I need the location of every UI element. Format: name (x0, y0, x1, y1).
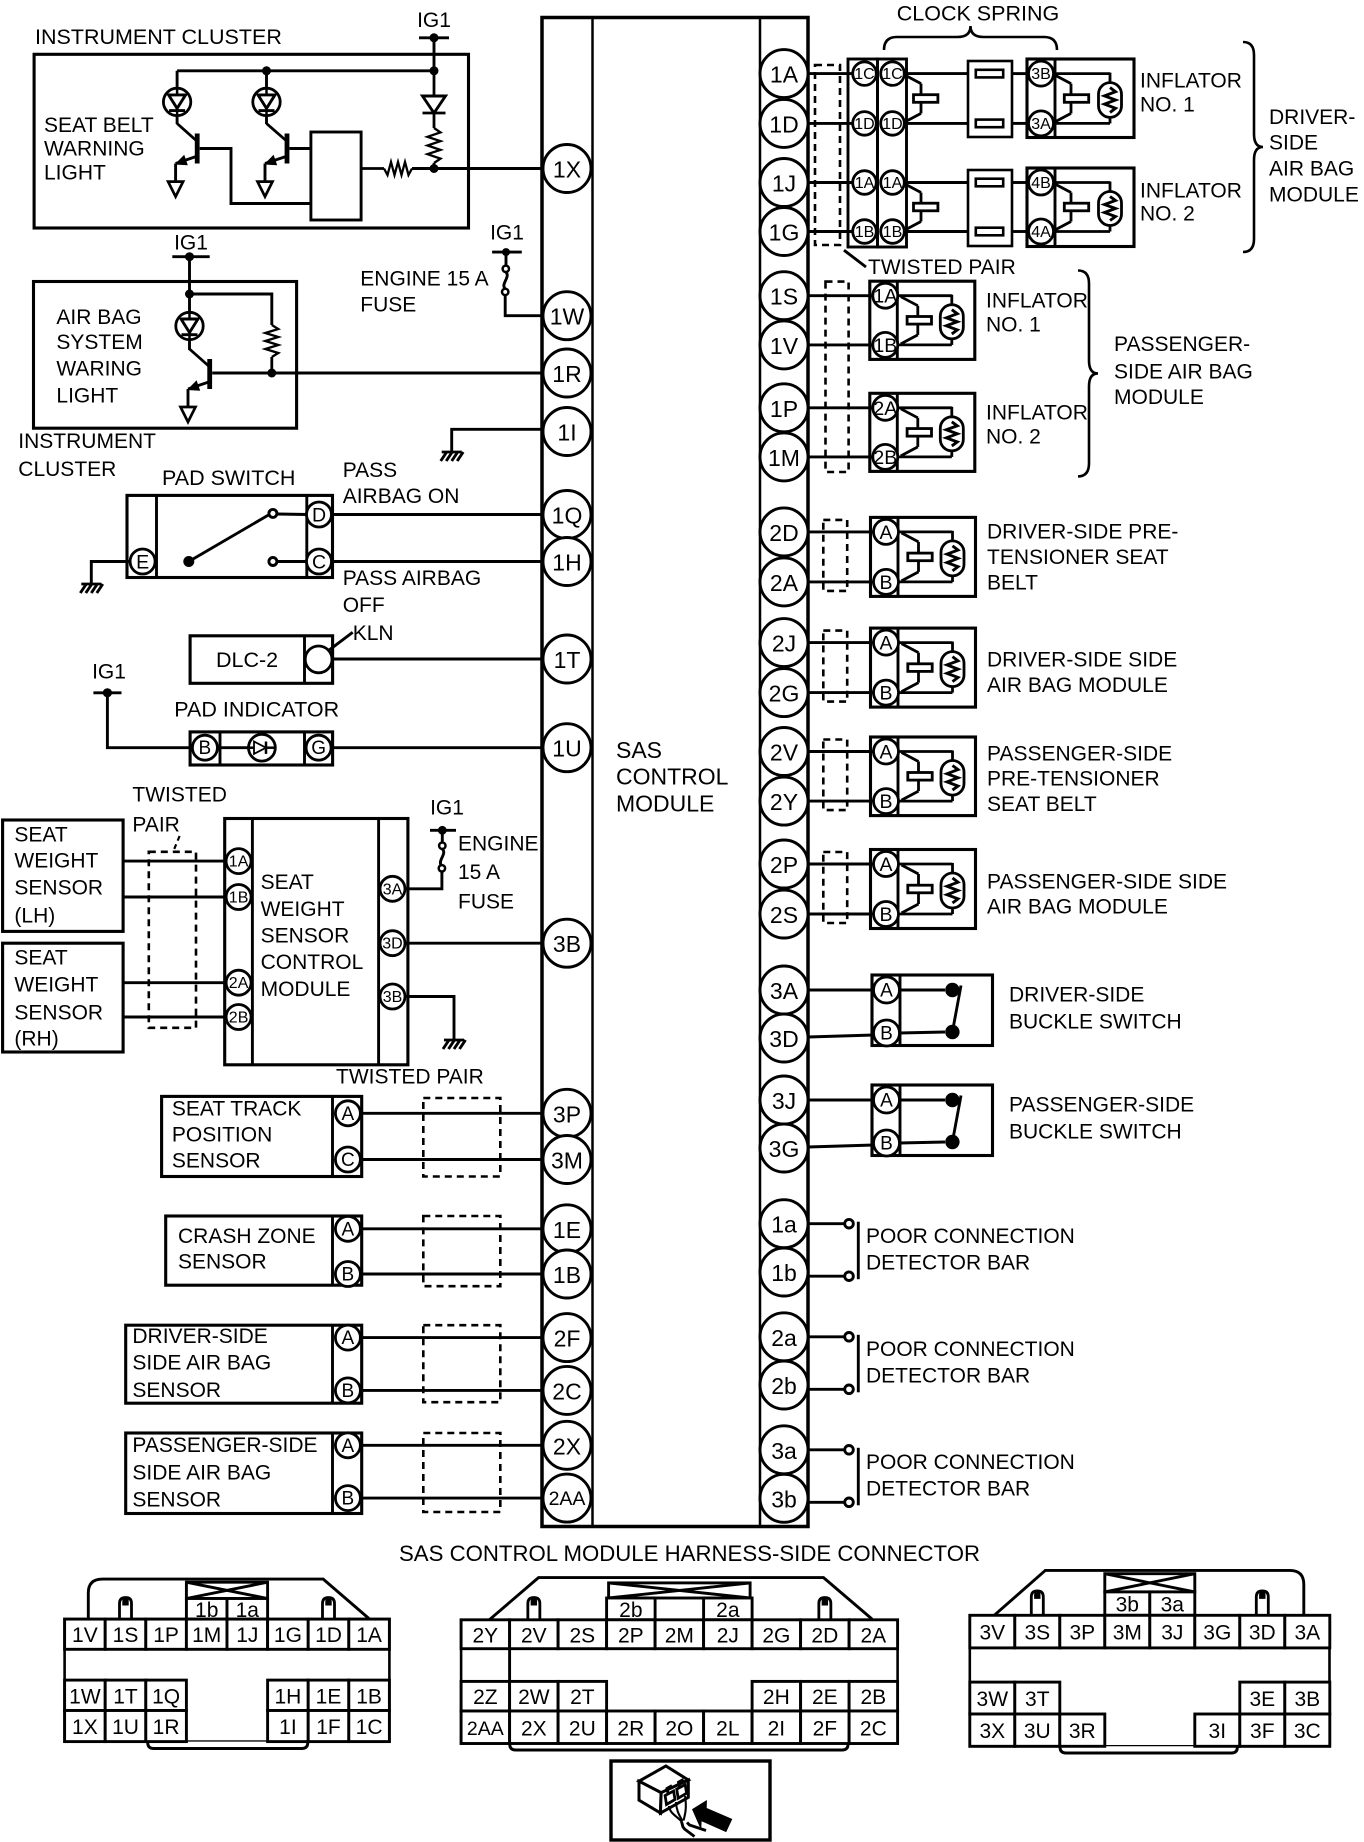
passenger inflator no.1 inflator squib element (898, 294, 952, 297)
svg-text:DRIVER-SIDE: DRIVER-SIDE (132, 1325, 267, 1348)
svg-text:DRIVER-: DRIVER- (1269, 106, 1355, 129)
junction dot (430, 66, 439, 75)
svg-text:2B: 2B (861, 1686, 887, 1709)
cell 1b (186, 1599, 227, 1622)
twisted pair shield (seat track) (423, 1098, 500, 1177)
wire fuse to terminal 3A (405, 871, 442, 889)
wire LED3 to Q3 collector (188, 340, 191, 350)
wire rail to LED2 (265, 71, 268, 88)
svg-text:SEAT BELT: SEAT BELT (987, 793, 1097, 816)
svg-text:POSITION: POSITION (172, 1124, 272, 1147)
svg-text:PASSENGER-: PASSENGER- (1114, 333, 1250, 356)
wire G to pin 1U (331, 746, 543, 749)
driver-side air bag module brace (1243, 42, 1263, 252)
svg-text:A: A (879, 854, 892, 876)
svg-text:3C: 3C (1294, 1720, 1321, 1743)
svg-text:2B: 2B (873, 447, 897, 469)
cell 3C (1285, 1714, 1330, 1746)
terminal B (192, 735, 217, 760)
connector icon arrow (692, 1800, 732, 1832)
svg-text:(LH): (LH) (14, 905, 55, 928)
passenger-side pre-tensioner seat belt squib shorting bar (902, 753, 933, 801)
SAS control module right pin-strip line (759, 18, 762, 1527)
svg-text:2U: 2U (569, 1717, 596, 1740)
svg-text:2J: 2J (772, 631, 796, 657)
svg-text:SEAT: SEAT (14, 824, 67, 847)
pin 1R (543, 349, 591, 397)
svg-text:1Q: 1Q (552, 503, 583, 529)
svg-text:1H: 1H (274, 1685, 301, 1708)
wire to passenger-side side air bag module A (808, 863, 873, 866)
svg-text:CONTROL: CONTROL (261, 951, 364, 974)
cell 1E (308, 1680, 349, 1710)
cell 2E (801, 1681, 850, 1711)
svg-text:SENSOR: SENSOR (132, 1379, 221, 1402)
connector terminal (976, 120, 1003, 128)
svg-text:B: B (879, 791, 892, 813)
cell 3T (1015, 1682, 1060, 1714)
svg-text:1X: 1X (553, 157, 581, 183)
terminal 3D (380, 931, 405, 956)
passenger-side pre-tensioner seat belt box (871, 737, 976, 816)
svg-text:TWISTED: TWISTED (132, 784, 227, 807)
svg-text:PASSENGER-SIDE: PASSENGER-SIDE (1009, 1094, 1194, 1117)
wire to inflator no.2 4B (1012, 181, 1028, 184)
svg-text:2S: 2S (570, 1624, 596, 1647)
harness connector 2 outline (489, 1578, 872, 1620)
svg-text:3I: 3I (1209, 1720, 1227, 1743)
svg-text:2V: 2V (770, 740, 799, 766)
wire pin 1I to ground (452, 429, 543, 452)
svg-text:A: A (880, 1091, 893, 1112)
svg-text:DETECTOR BAR: DETECTOR BAR (866, 1478, 1030, 1501)
wire D to pin 1Q (331, 513, 543, 516)
svg-text:1P: 1P (770, 396, 798, 422)
seat weight sensor control module box (225, 819, 408, 1065)
driver-side pre-tensioner seat belt terminal B (874, 569, 899, 594)
svg-text:2Y: 2Y (473, 1624, 499, 1647)
harness connector 3 bottom tab (1060, 1746, 1237, 1753)
pin 3G (760, 1124, 808, 1172)
wire rail to LED1 (176, 71, 179, 88)
svg-text:2A: 2A (229, 975, 249, 992)
cell 2L (704, 1711, 753, 1744)
svg-text:2T: 2T (570, 1686, 595, 1709)
svg-text:A: A (879, 522, 892, 544)
wire fuse to pin 1W (505, 295, 543, 316)
pin 1T (543, 635, 591, 683)
svg-text:1a: 1a (771, 1212, 797, 1238)
svg-text:A: A (880, 981, 893, 1002)
cell 2P (607, 1620, 656, 1649)
poor connection detector bar 1 top contact (845, 1219, 854, 1228)
wire to inflator no.1 3A (1012, 122, 1028, 125)
inflator no.2 squib bar (1054, 184, 1089, 231)
cell 1X (65, 1711, 106, 1742)
svg-text:1I: 1I (279, 1716, 297, 1739)
cell 3S (1015, 1615, 1060, 1648)
pad indicator box (190, 732, 333, 765)
connector terminal (976, 70, 1003, 78)
svg-text:2W: 2W (518, 1686, 550, 1709)
clock spring terminal 1C (harness side) (853, 62, 877, 86)
cell 3A (1285, 1615, 1330, 1648)
svg-text:2H: 2H (763, 1686, 790, 1709)
svg-text:MODULE: MODULE (1269, 184, 1359, 207)
ground (1I) (441, 452, 464, 461)
cell 3D (1240, 1615, 1285, 1648)
pad switch contact (OFF) (269, 558, 277, 566)
pin 1G (760, 208, 808, 256)
terminal E (130, 549, 155, 574)
seat weight sensor (RH) box (3, 943, 124, 1052)
cell 2D (801, 1620, 850, 1649)
svg-text:POOR CONNECTION: POOR CONNECTION (866, 1225, 1075, 1248)
cell 2U (558, 1711, 607, 1744)
cell 3M (1105, 1615, 1150, 1648)
svg-text:G: G (311, 738, 326, 759)
svg-text:B: B (342, 1489, 355, 1510)
svg-text:3a: 3a (1161, 1594, 1185, 1617)
svg-text:2C: 2C (860, 1717, 887, 1740)
svg-text:1B: 1B (873, 335, 897, 357)
cell 2X (510, 1711, 558, 1744)
passenger-side pre-tensioner seat belt inflator squib element (899, 750, 953, 753)
passenger-side side air bag module box (871, 850, 976, 929)
connector terminal (976, 179, 1003, 187)
svg-text:3G: 3G (769, 1136, 800, 1162)
svg-text:2P: 2P (618, 1624, 644, 1647)
node IG1 (air bag warning light) (172, 232, 209, 262)
twisted pair shield (clock spring) (815, 65, 840, 245)
svg-text:PAIR: PAIR (132, 814, 179, 837)
wire 1B to inflator connector (904, 230, 968, 233)
cell 1U (105, 1711, 146, 1742)
SAS control module body (542, 18, 808, 1527)
pad switch box (127, 495, 333, 577)
svg-text:AIRBAG ON: AIRBAG ON (343, 485, 460, 508)
svg-text:3W: 3W (977, 1688, 1009, 1711)
pin 2b (760, 1361, 808, 1409)
diode D1 (vertical) (423, 71, 446, 128)
node IG1 (instrument cluster) (417, 9, 451, 42)
svg-text:2A: 2A (873, 398, 897, 420)
svg-text:1S: 1S (113, 1624, 139, 1647)
svg-text:BUCKLE SWITCH: BUCKLE SWITCH (1009, 1011, 1182, 1034)
passenger-side side air bag sensor box (126, 1433, 362, 1514)
driver-side buckle switch terminal A (874, 977, 900, 1003)
svg-text:DLC-2: DLC-2 (216, 648, 278, 672)
harness connector 1 pin post (323, 1598, 335, 1620)
pin 1A (760, 50, 808, 98)
harness connector 3 pin post (1031, 1591, 1043, 1615)
harness connector 1 outline (88, 1579, 369, 1619)
svg-text:3B: 3B (1294, 1688, 1320, 1711)
terminal A (335, 1433, 360, 1458)
pin 1b (760, 1248, 808, 1296)
svg-text:SENSOR: SENSOR (132, 1489, 221, 1512)
wire C to pin 1H (331, 560, 543, 563)
svg-text:SEAT TRACK: SEAT TRACK (172, 1098, 302, 1121)
harness connector 1 bottom tab (148, 1742, 308, 1749)
inflator no.2 squib element (1054, 181, 1110, 184)
pin 2S (760, 890, 808, 938)
svg-text:1C: 1C (882, 66, 902, 83)
seat track position sensor box (162, 1096, 362, 1176)
svg-text:ENGINE 15 A: ENGINE 15 A (360, 267, 488, 290)
svg-text:A: A (342, 1328, 355, 1349)
wire DLC-2 to pin 1T (332, 658, 543, 661)
svg-text:1I: 1I (557, 420, 576, 446)
svg-text:3D: 3D (1249, 1622, 1276, 1645)
svg-text:2S: 2S (770, 902, 798, 928)
svg-text:1D: 1D (315, 1624, 342, 1647)
svg-text:2I: 2I (768, 1717, 786, 1740)
svg-text:2P: 2P (770, 852, 798, 878)
svg-text:WARING: WARING (56, 358, 142, 381)
driver-side side air bag module terminal A (874, 630, 899, 655)
wire pin 1J to connector 1A (808, 181, 853, 184)
svg-text:DETECTOR BAR: DETECTOR BAR (866, 1251, 1030, 1274)
seat weight sensor (LH) box (3, 820, 124, 931)
terminal B (335, 1486, 360, 1511)
twisted pair shield (passenger-side pre-tensioner seat belt) (823, 740, 847, 811)
wire Q1 emitter to ground marker (174, 164, 177, 182)
svg-text:1U: 1U (112, 1716, 139, 1739)
pin 1U (543, 724, 591, 772)
svg-text:B: B (199, 738, 212, 759)
svg-text:3a: 3a (771, 1438, 797, 1464)
cell 3a (1150, 1592, 1195, 1617)
node IG1 (seat weight fuse) (430, 797, 464, 835)
svg-text:SYSTEM: SYSTEM (56, 331, 142, 354)
wire pin 1A to connector 1C (808, 72, 853, 75)
cell 1R (146, 1711, 187, 1742)
svg-text:SENSOR: SENSOR (14, 877, 103, 900)
poor connection detector bar 3 bar (857, 1448, 860, 1506)
wire to driver-side buckle switch B (808, 1035, 874, 1037)
svg-text:SENSOR: SENSOR (261, 925, 350, 948)
svg-text:BUCKLE SWITCH: BUCKLE SWITCH (1009, 1121, 1182, 1144)
wire RH to 2B (123, 1016, 227, 1019)
wire IG1 down to supply rail (433, 38, 436, 71)
svg-text:1R: 1R (153, 1716, 180, 1739)
svg-text:3P: 3P (553, 1101, 581, 1127)
driver-side pre-tensioner seat belt terminal A (874, 519, 899, 544)
cell 3F (1240, 1714, 1285, 1746)
transistor Q3 (187, 349, 212, 391)
svg-text:SIDE AIR BAG: SIDE AIR BAG (1114, 361, 1253, 384)
clock spring terminal 1A (harness side) (853, 171, 877, 195)
cell 1Q (146, 1680, 187, 1710)
cell 2Y (461, 1620, 510, 1649)
svg-text:INFLATOR: INFLATOR (1140, 70, 1242, 93)
clock spring harness-side connector box (848, 59, 878, 247)
svg-text:1T: 1T (554, 647, 581, 673)
svg-text:1C: 1C (356, 1716, 383, 1739)
svg-text:MODULE: MODULE (616, 790, 714, 816)
svg-text:1Q: 1Q (152, 1685, 180, 1708)
svg-text:INSTRUMENT CLUSTER: INSTRUMENT CLUSTER (35, 25, 282, 49)
twisted pair shield (crash zone) (423, 1216, 500, 1286)
wire to inflator no.2 4A (1012, 230, 1028, 233)
svg-text:MODULE: MODULE (1114, 386, 1204, 409)
wire to inflator no.1 3B (1012, 72, 1028, 75)
terminal 3A (380, 876, 405, 901)
svg-text:FUSE: FUSE (458, 891, 514, 914)
svg-text:2V: 2V (521, 1624, 547, 1647)
svg-text:2AA: 2AA (549, 1488, 586, 1510)
cell 2W (510, 1681, 558, 1711)
svg-text:3D: 3D (382, 936, 402, 953)
wire to poor connection detector bar 2 top contact (808, 1335, 846, 1338)
svg-text:SENSOR: SENSOR (14, 1002, 103, 1025)
terminal C (307, 549, 332, 574)
svg-text:CRASH ZONE: CRASH ZONE (178, 1225, 316, 1248)
svg-text:15 A: 15 A (458, 861, 500, 884)
pin 1V (760, 321, 808, 369)
crash zone sensor box (166, 1216, 362, 1285)
wire 3D to pin 3B (405, 942, 543, 945)
svg-text:1C: 1C (854, 66, 874, 83)
svg-text:2X: 2X (521, 1717, 547, 1740)
svg-text:WEIGHT: WEIGHT (14, 974, 98, 997)
cell 1C (349, 1711, 390, 1742)
cell 1I (268, 1711, 309, 1742)
pin 2J (760, 619, 808, 667)
ground (seat weight sensor control module) (443, 1040, 466, 1049)
clock spring unit-side connector box (878, 59, 907, 247)
svg-text:C: C (341, 1150, 355, 1171)
terminal G (306, 735, 331, 760)
wire pin 1P to inflator 2A (808, 406, 872, 409)
svg-text:POOR CONNECTION: POOR CONNECTION (866, 1338, 1075, 1361)
svg-text:SAS: SAS (616, 737, 662, 763)
cell 2S (558, 1620, 607, 1649)
svg-text:1G: 1G (274, 1624, 302, 1647)
wire Q3 base to pin 1R (212, 372, 543, 375)
svg-text:IG1: IG1 (430, 797, 464, 820)
svg-text:B: B (879, 683, 892, 705)
cell 3W (970, 1682, 1015, 1714)
pad switch lever (189, 515, 269, 562)
wire contact to C (277, 560, 307, 563)
cell 3V (970, 1615, 1015, 1648)
cell 1P (146, 1619, 187, 1649)
svg-text:1V: 1V (72, 1624, 98, 1647)
svg-text:2F: 2F (554, 1326, 581, 1352)
svg-text:IG1: IG1 (490, 222, 524, 245)
passenger-side buckle switch box (872, 1085, 993, 1156)
pin 2Y (760, 777, 808, 825)
svg-text:2AA: 2AA (467, 1718, 504, 1740)
svg-text:B: B (880, 1024, 893, 1045)
svg-text:1A: 1A (770, 62, 799, 88)
inflator no.2 terminal 4A (1029, 219, 1054, 244)
cell 3E (1240, 1682, 1285, 1714)
wire to passenger-side pre-tensioner seat belt B (808, 800, 873, 803)
wire pin 1M to inflator 2B (808, 455, 872, 458)
svg-text:INSTRUMENT: INSTRUMENT (18, 430, 156, 453)
cell 2I (752, 1711, 801, 1744)
svg-text:TWISTED PAIR: TWISTED PAIR (868, 256, 1016, 279)
svg-text:3P: 3P (1069, 1622, 1095, 1645)
pin 3M (543, 1136, 591, 1184)
pin 1P (760, 384, 808, 432)
passenger inflator no.2 inflator squib element (898, 406, 952, 409)
pin 1X (543, 145, 591, 193)
svg-text:SEAT BELT: SEAT BELT (44, 114, 154, 137)
svg-text:TWISTED PAIR: TWISTED PAIR (336, 1066, 484, 1089)
svg-text:2A: 2A (861, 1624, 887, 1647)
svg-text:1M: 1M (768, 445, 800, 471)
svg-text:SENSOR: SENSOR (172, 1150, 261, 1173)
inflator no.1 squib element (1054, 72, 1110, 75)
passenger-side buckle switch terminal B (874, 1130, 900, 1156)
clock spring terminal 1A (unit side) (881, 171, 905, 195)
cell 1W (65, 1680, 106, 1710)
cell 2O (655, 1711, 704, 1744)
wire 1D to inflator connector (904, 122, 968, 125)
pin 2G (760, 669, 808, 717)
terminal D (307, 502, 332, 527)
wire A to pin 2X (360, 1444, 543, 1447)
connector icon 3d block (639, 1766, 706, 1837)
twisted pair shield (passenger-side sensor) (423, 1433, 500, 1512)
wire to poor connection detector bar 3 bottom contact (808, 1501, 846, 1504)
svg-text:2D: 2D (811, 1624, 838, 1647)
svg-text:1W: 1W (550, 304, 585, 330)
passenger-side buckle switch switch contact bottom (945, 1135, 959, 1149)
wire to passenger-side side air bag module B (808, 913, 873, 916)
svg-text:WEIGHT: WEIGHT (14, 850, 98, 873)
svg-text:2G: 2G (762, 1624, 790, 1647)
twisted pair shield (seat weight) (149, 852, 196, 1028)
svg-text:1F: 1F (316, 1716, 341, 1739)
svg-text:2Y: 2Y (770, 789, 798, 815)
svg-text:PAD INDICATOR: PAD INDICATOR (174, 698, 339, 722)
svg-text:1U: 1U (552, 736, 581, 762)
passenger-side pre-tensioner seat belt terminal A (874, 739, 899, 764)
svg-text:3A: 3A (770, 978, 799, 1004)
svg-text:3B: 3B (1031, 66, 1051, 83)
passenger-side side air bag module terminal A (874, 852, 899, 877)
svg-text:1S: 1S (770, 284, 798, 310)
wire E to ground (91, 562, 130, 585)
svg-text:SENSOR: SENSOR (178, 1251, 267, 1274)
fuse ENGINE 15 A (seat weight) (439, 830, 446, 871)
svg-text:A: A (879, 742, 892, 764)
terminal B (335, 1378, 360, 1403)
pin 1B (543, 1250, 591, 1298)
pin 1H (543, 538, 591, 586)
twisted pair shield (passenger inflators) (826, 282, 849, 472)
svg-text:2R: 2R (617, 1717, 644, 1740)
svg-text:ENGINE: ENGINE (458, 833, 539, 856)
svg-text:1A: 1A (883, 175, 903, 192)
svg-text:3b: 3b (1116, 1594, 1139, 1617)
terminal A (335, 1325, 360, 1350)
pad switch contact (ON) (269, 509, 277, 517)
pin 3a (760, 1426, 808, 1474)
LED air bag system warning lamp (176, 312, 203, 339)
svg-text:NO. 2: NO. 2 (1140, 203, 1195, 226)
wire to poor connection detector bar 1 bottom contact (808, 1275, 846, 1278)
terminal 1A (226, 849, 251, 874)
svg-text:3J: 3J (1161, 1622, 1183, 1645)
pin 2a (760, 1313, 808, 1361)
clock spring terminal 1C (unit side) (881, 62, 905, 86)
